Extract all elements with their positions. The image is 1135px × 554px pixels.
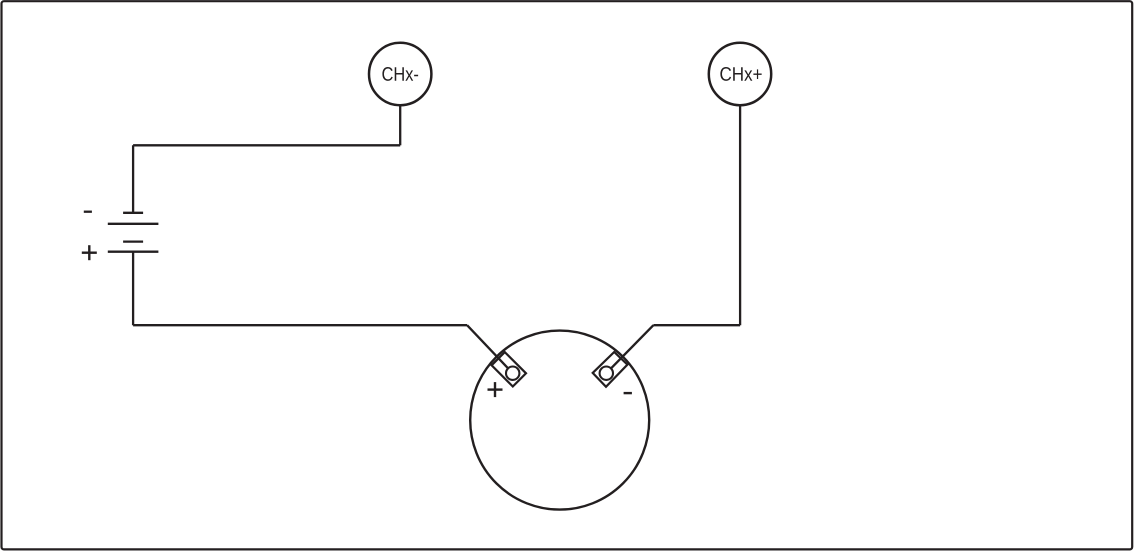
motor minus label <box>624 392 632 394</box>
motor plus label <box>488 382 503 397</box>
wire: down to battery negative plate <box>132 145 134 213</box>
terminal CHx- circle <box>369 43 431 105</box>
wire: horizontal run toward motor minus <box>653 324 740 326</box>
motor negative lug hole <box>600 367 613 380</box>
label CHx+ <box>720 67 761 81</box>
battery negative short plate <box>123 212 143 214</box>
terminal CHx+ circle <box>709 43 771 105</box>
motor negative lug plate <box>593 352 628 387</box>
wire: diagonal into motor positive lug <box>467 325 513 373</box>
terminal CHx- <box>369 43 431 105</box>
battery short plate 2 <box>123 240 143 242</box>
battery plus label <box>82 245 97 260</box>
battery long plate 1 <box>108 223 159 225</box>
motor positive lug hole <box>506 367 519 380</box>
motor M1 body <box>470 331 649 510</box>
wire: battery positive down <box>132 252 134 326</box>
battery B1 <box>108 213 159 252</box>
terminal CHx+ <box>709 43 771 105</box>
battery positive long plate <box>108 251 159 253</box>
wire: CHx+ terminal down <box>739 105 741 325</box>
wire: horizontal run to battery negative <box>133 144 400 146</box>
wire: CHx- terminal down <box>399 105 401 145</box>
label CHx- <box>382 67 418 81</box>
battery minus label <box>84 211 92 213</box>
wire: horizontal run toward motor <box>133 324 467 326</box>
wire: diagonal into motor negative lug <box>606 325 653 373</box>
motor positive lug plate <box>492 352 526 386</box>
